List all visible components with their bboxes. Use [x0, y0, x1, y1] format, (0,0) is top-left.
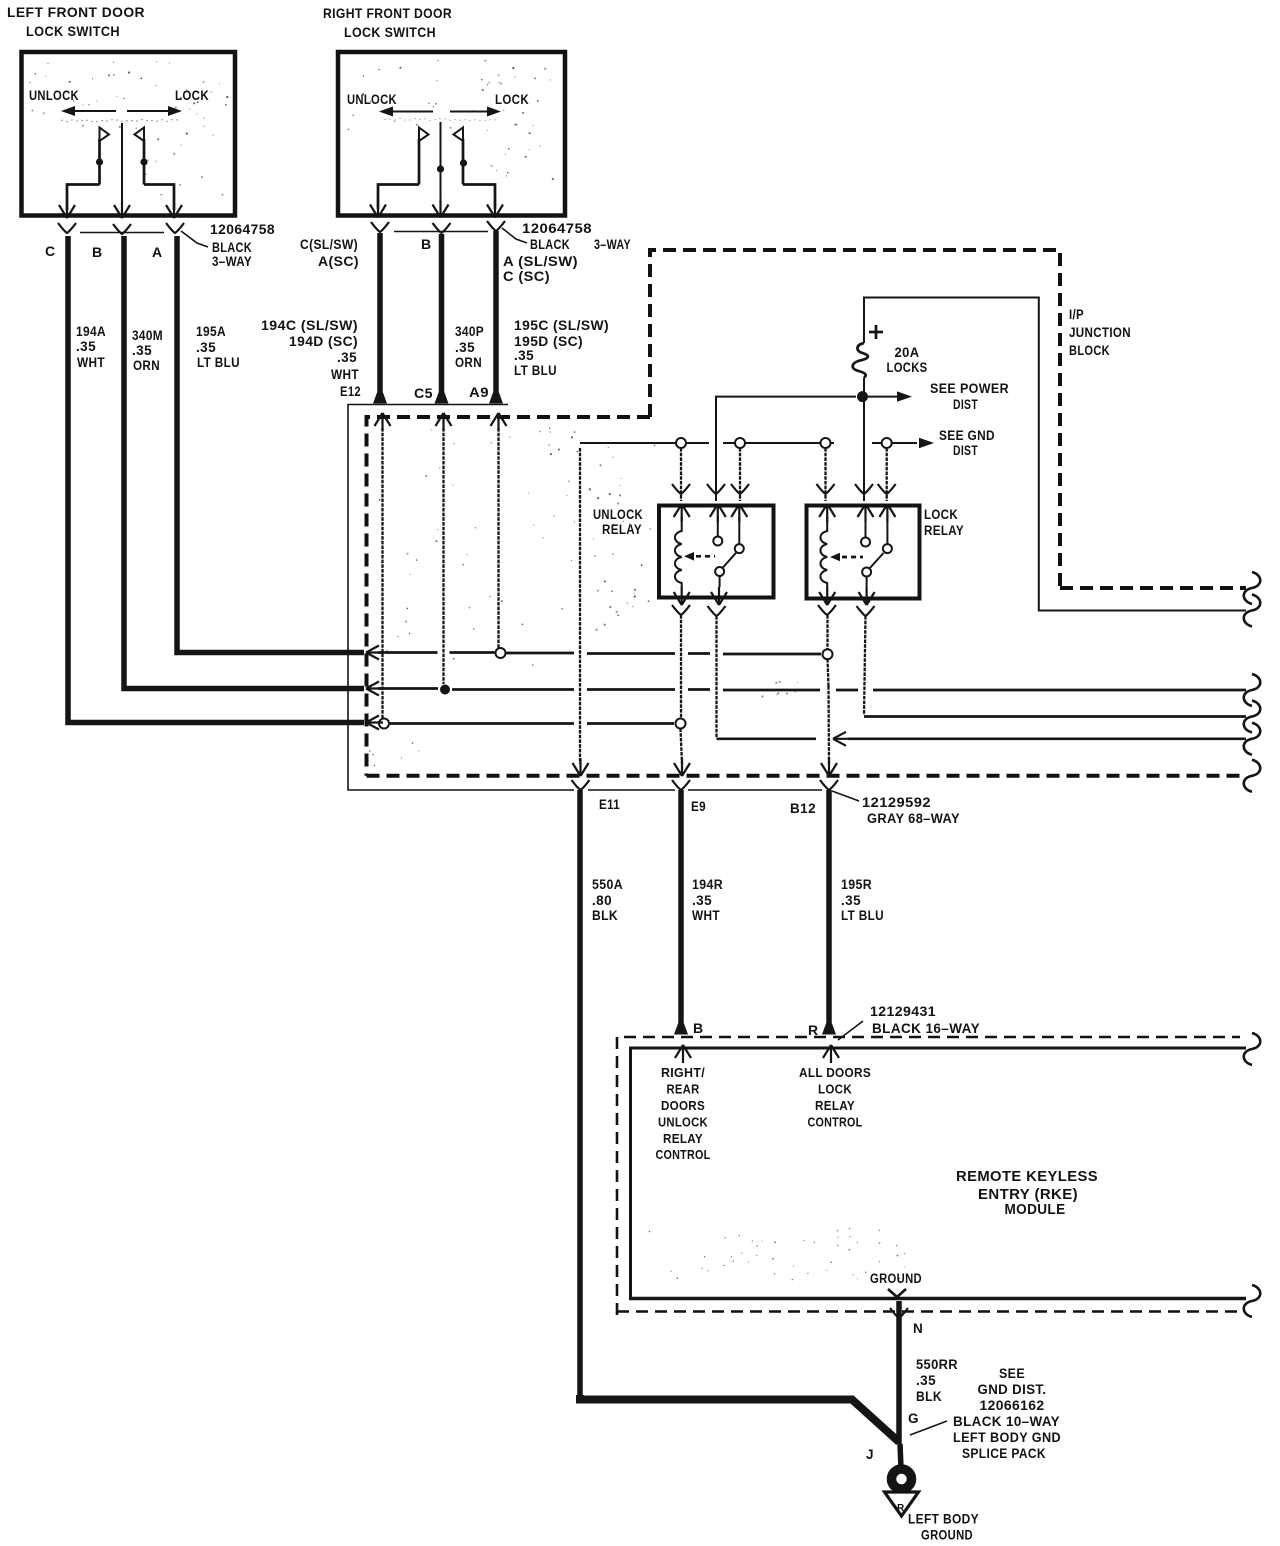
wire label 340P .35 ORN [455, 324, 484, 370]
wire label 194R .35 WHT [692, 877, 723, 923]
wire 550A ground run [580, 1395, 899, 1442]
svg-text:J: J [866, 1447, 874, 1462]
ground triangle symbol R [885, 1492, 919, 1516]
svg-text:RELAY: RELAY [815, 1099, 855, 1113]
continuation squiggle dashed I/P row [1244, 572, 1261, 604]
wire 194R E9 down [678, 790, 684, 1026]
lock relay movable blade [862, 553, 883, 587]
unlock contact blade (left box) [67, 128, 109, 211]
svg-text:RELAY: RELAY [663, 1132, 703, 1146]
connector bracket 68-way upper row [348, 405, 508, 791]
unlock relay box K1 [659, 506, 774, 598]
wire 340M B-to-D5 [124, 236, 364, 689]
svg-text:340M: 340M [132, 328, 163, 343]
svg-text:RELAY: RELAY [602, 522, 642, 537]
svg-text:SPLICE PACK: SPLICE PACK [962, 1446, 1046, 1461]
wire label 195C (SL/SW) 195D (SC) .35 LT BLU [514, 318, 609, 378]
svg-text:E12: E12 [340, 384, 361, 399]
svg-text:550A: 550A [592, 877, 623, 892]
svg-text:12064758: 12064758 [210, 222, 275, 237]
svg-text:UNLOCK: UNLOCK [347, 92, 397, 107]
pin chevron unlock contact [731, 484, 749, 494]
continuation squiggle module top [1244, 1033, 1261, 1065]
wire unlock coil to E9 upper [680, 615, 682, 718]
svg-text:LEFT BODY GND: LEFT BODY GND [953, 1430, 1061, 1445]
wire 195R B12 down [826, 790, 832, 1026]
svg-text:E11: E11 [599, 797, 620, 812]
connector label 12129592 GRAY 68-WAY [862, 795, 960, 826]
svg-text:ORN: ORN [133, 358, 160, 373]
connector pin C (right) [371, 222, 389, 232]
svg-text:12129592: 12129592 [862, 795, 931, 810]
lock relay NO contact [883, 516, 892, 553]
row arrow at unlock blade row [833, 732, 850, 746]
pin chevron E9 [672, 780, 690, 790]
lock travel arrow (left box) [127, 106, 182, 116]
lock contact blade (left box) [135, 128, 175, 211]
svg-text:340P: 340P [455, 324, 484, 339]
continuation squiggle row D5 [1244, 674, 1261, 706]
terminal arrow B at box bottom (right) [433, 200, 449, 218]
connector leader line (right box) [502, 228, 527, 243]
connector pin C [58, 223, 76, 233]
pin chevron B12 [820, 780, 838, 790]
svg-text:B: B [92, 244, 103, 260]
svg-text:LOCK: LOCK [924, 507, 958, 522]
lock relay blade bottom arrow [859, 587, 875, 605]
svg-text:REMOTE KEYLESS: REMOTE KEYLESS [956, 1169, 1098, 1185]
unlock relay coil [675, 516, 682, 587]
svg-text:LOCK: LOCK [495, 92, 529, 107]
row D5 entry arrow [366, 682, 383, 696]
svg-text:C5: C5 [414, 386, 433, 401]
wire A right box to A9 [493, 231, 499, 398]
svg-text:A: A [152, 244, 163, 260]
see gnd dist arrowhead [919, 438, 934, 448]
junction circle gnd / lock coil [821, 438, 831, 448]
svg-text:MODULE: MODULE [1005, 1202, 1066, 1218]
entry arrow A9 at dashed border [491, 413, 507, 431]
svg-text:REAR: REAR [667, 1083, 700, 1097]
unlock travel arrow (right box) [379, 107, 433, 117]
connector pin B [113, 224, 131, 234]
svg-text:R: R [808, 1022, 819, 1038]
svg-text:194R: 194R [692, 877, 723, 892]
svg-text:12129431: 12129431 [870, 1004, 936, 1019]
svg-text:ENTRY (RKE): ENTRY (RKE) [978, 1187, 1078, 1203]
connector leader 12129592 [832, 791, 859, 801]
speckle noise [30, 60, 906, 1281]
junction circle gnd / lock contact [882, 438, 892, 448]
wire lock coil to B12 middle [828, 659, 829, 686]
svg-text:RIGHT/: RIGHT/ [661, 1066, 705, 1080]
svg-text:12064758: 12064758 [522, 221, 592, 236]
wire label 550RR .35 BLK [916, 1357, 958, 1404]
connector bridge line (left box) [80, 232, 164, 234]
svg-text:CONTROL: CONTROL [656, 1148, 711, 1162]
svg-text:20A: 20A [895, 345, 920, 360]
svg-text:LOCK SWITCH: LOCK SWITCH [26, 24, 120, 39]
svg-text:I/P: I/P [1069, 307, 1084, 322]
svg-text:DIST: DIST [953, 443, 978, 458]
svg-text:A9: A9 [469, 385, 489, 400]
terminal arrow C at box bottom (right) [370, 200, 386, 218]
junction circle E12/D12 [379, 719, 389, 729]
svg-text:550RR: 550RR [916, 1357, 958, 1372]
terminal foot C5 [435, 393, 449, 404]
svg-text:.35: .35 [196, 340, 216, 355]
terminal arrow C at box bottom [59, 200, 75, 218]
svg-text:RIGHT FRONT DOOR: RIGHT FRONT DOOR [323, 6, 452, 21]
svg-text:BLACK 16–WAY: BLACK 16–WAY [872, 1021, 980, 1036]
svg-text:WHT: WHT [692, 908, 720, 923]
svg-text:.35: .35 [132, 343, 152, 358]
wire 195A A-to-A12 [177, 236, 364, 653]
svg-text:.35: .35 [337, 350, 357, 365]
row D5 [378, 689, 1246, 691]
terminal arrow B at box bottom [114, 200, 130, 218]
svg-text:B: B [421, 236, 432, 252]
junction circle A9/A12 [496, 648, 506, 658]
pin chevron below unlock blade [708, 606, 726, 616]
wire lock coil to B12 upper [826, 615, 828, 649]
svg-text:.35: .35 [76, 339, 96, 354]
wire unlock blade to row [715, 616, 717, 738]
svg-text:B: B [693, 1020, 704, 1036]
wire label 194A .35 WHT [76, 324, 106, 370]
module entry arrow B [675, 1045, 691, 1063]
wire 194A C-to-D12 [68, 236, 364, 723]
unlock relay label [593, 507, 643, 537]
pin chevron lock power [855, 484, 873, 494]
unlock relay fixed contact top [713, 516, 722, 546]
connector label 12064758 BLACK 3-WAY (right box) [522, 221, 631, 252]
continuation squiggle unlock blade row [1244, 723, 1261, 755]
unlock relay blade bottom arrow [711, 587, 727, 605]
lock relay coil bottom arrow [819, 587, 835, 605]
wire label 340M .35 ORN [132, 328, 163, 373]
splice leader line [910, 1421, 947, 1435]
continuation squiggle dashed bottom row [1244, 760, 1261, 792]
ground label left body ground [908, 1512, 979, 1543]
svg-text:LOCK: LOCK [175, 88, 209, 103]
continuation squiggle module bottom [1244, 1285, 1261, 1317]
svg-text:3–WAY: 3–WAY [594, 237, 631, 252]
wire E11 inside junction block [579, 448, 581, 764]
junction dot fuse / power feed [857, 391, 868, 402]
svg-text:GRAY 68–WAY: GRAY 68–WAY [867, 811, 960, 826]
wire A9 to A12 row [497, 428, 499, 648]
svg-text:UNLOCK: UNLOCK [593, 507, 643, 522]
unlock relay pin arrow coil top [674, 504, 690, 522]
svg-text:LOCKS: LOCKS [887, 360, 928, 375]
module text right/rear doors unlock relay control [656, 1066, 711, 1162]
pin chevron below lock coil [818, 605, 836, 615]
lock travel arrow (right box) [450, 107, 501, 117]
see power dist label [930, 381, 1009, 412]
connector pin B (right) [433, 223, 451, 233]
see gnd dist label [939, 428, 995, 458]
continuation squiggle lock blade row [1244, 701, 1261, 733]
unlock relay pin arrow contact top [731, 504, 747, 522]
lock relay coil [820, 516, 827, 587]
entry arrow C5 at dashed border [436, 413, 452, 431]
I/P junction block label [1069, 307, 1131, 358]
lock relay actuator link [830, 553, 863, 562]
junction circle D12 / E9 wire [676, 719, 686, 729]
wire gnd to unlock coil pin [680, 448, 682, 501]
wire gnd to lock coil pin [824, 448, 826, 501]
ring terminal [892, 1469, 912, 1489]
switch common pole B (left box) [121, 123, 123, 214]
power branch to unlock relay [716, 397, 856, 501]
lock relay pin arrow contact top [879, 504, 895, 522]
svg-text:194D (SC): 194D (SC) [289, 334, 358, 349]
right front door lock switch title [323, 6, 452, 40]
svg-text:LEFT FRONT DOOR: LEFT FRONT DOOR [7, 5, 145, 20]
unlock relay coil bottom arrow [674, 587, 690, 605]
unlock relay pin arrow power top [710, 504, 726, 522]
svg-text:B12: B12 [790, 801, 816, 816]
svg-text:LOCK: LOCK [818, 1083, 852, 1097]
svg-text:C: C [45, 243, 56, 259]
wire module ground to N [896, 1301, 902, 1444]
svg-text:SEE GND: SEE GND [939, 428, 995, 443]
splice label black 10-way left body gnd splice pack [953, 1414, 1061, 1461]
terminal foot B [674, 1024, 688, 1035]
connector pin A (right) [487, 221, 505, 231]
connector label 12064758 BLACK 3-WAY (left box) [210, 222, 275, 269]
svg-text:195D (SC): 195D (SC) [514, 334, 583, 349]
exit arrow E11 [573, 758, 589, 776]
row A12 entry arrow [366, 646, 383, 660]
svg-text:N: N [913, 1321, 923, 1336]
svg-text:C(SL/SW): C(SL/SW) [300, 237, 358, 252]
pin chevron E11 [572, 780, 590, 790]
wire C5 to D5 row [442, 428, 444, 684]
right front door lock switch box S2 [338, 52, 565, 216]
wire lock coil to B12 lower [827, 686, 830, 764]
svg-text:.35: .35 [455, 340, 475, 355]
pin chevron below unlock coil [672, 605, 690, 615]
svg-text:CONTROL: CONTROL [808, 1116, 863, 1130]
unlock travel arrow (left box) [61, 106, 116, 116]
wire gnd to unlock contact pin [739, 448, 741, 501]
wire label 194C (SL/SW) 194D (SC) .35 WHT [261, 318, 359, 382]
svg-text:.80: .80 [592, 893, 612, 908]
wire 550A E11 down [577, 790, 583, 1399]
wire E12 to D12 row [381, 428, 383, 718]
wire label 195A .35 LT BLU [196, 324, 240, 370]
svg-text:UNLOCK: UNLOCK [29, 88, 79, 103]
svg-text:BLACK: BLACK [212, 240, 252, 255]
svg-text:.35: .35 [916, 1373, 936, 1388]
svg-text:UNLOCK: UNLOCK [658, 1116, 708, 1130]
note see gnd dist 12066162 [978, 1366, 1047, 1413]
I/P junction block dashed boundary [650, 250, 1246, 588]
svg-text:BLOCK: BLOCK [1069, 343, 1110, 358]
svg-text:BLK: BLK [916, 1389, 942, 1404]
fuse feed wire to power dist [864, 298, 1246, 611]
exit arrow B12 [821, 758, 837, 776]
unlock blade row continuation [848, 737, 1246, 740]
unlock relay movable blade [715, 553, 736, 587]
terminal arrow A at box bottom [166, 200, 182, 218]
ground bus E11 corner [580, 442, 676, 444]
svg-text:GROUND: GROUND [870, 1271, 922, 1286]
svg-text:GND DIST.: GND DIST. [978, 1382, 1047, 1397]
module text all doors lock relay control [799, 1066, 871, 1130]
pin chevron unlock power [707, 484, 725, 494]
svg-text:LT BLU: LT BLU [514, 363, 557, 378]
lock relay pin arrow coil top [819, 504, 835, 522]
pin label A (SL/SW) C (SC) [503, 254, 578, 284]
inner junction block dashed border [367, 417, 1247, 776]
svg-text:WHT: WHT [77, 355, 105, 370]
svg-text:.35: .35 [514, 348, 534, 363]
svg-text:G: G [908, 1411, 919, 1426]
svg-text:195C (SL/SW): 195C (SL/SW) [514, 318, 609, 333]
svg-text:LEFT BODY: LEFT BODY [908, 1512, 979, 1527]
svg-text:195A: 195A [196, 324, 226, 339]
row D12 [378, 723, 674, 724]
svg-text:ORN: ORN [455, 355, 482, 370]
svg-text:C (SC): C (SC) [503, 269, 550, 284]
wire unlock coil to E9 lower [681, 729, 683, 765]
svg-text:A(SC): A(SC) [318, 254, 359, 269]
svg-text:A (SL/SW): A (SL/SW) [503, 254, 578, 269]
lock relay pin arrow power top [858, 504, 874, 522]
svg-text:ALL DOORS: ALL DOORS [799, 1066, 871, 1080]
switch common pole B (right box) [437, 122, 444, 213]
svg-text:RELAY: RELAY [924, 523, 964, 538]
svg-text:DIST: DIST [953, 397, 978, 412]
left front door lock switch box S1 [22, 52, 236, 216]
svg-text:194A: 194A [76, 324, 106, 339]
svg-text:GROUND: GROUND [921, 1528, 973, 1543]
module name remote keyless entry (RKE) module [956, 1169, 1098, 1218]
connector leader line (left box) [181, 231, 208, 247]
wire lock blade to row [864, 616, 866, 715]
wire fuse to lock relay [863, 378, 865, 502]
pin label C(SL/SW) A(SC) [300, 237, 359, 269]
connector bridge line (right box) [394, 231, 488, 233]
pin chevron N [890, 1308, 908, 1318]
entry arrow E12 at dashed border [375, 413, 391, 431]
pin chevron lock contact [878, 484, 896, 494]
svg-text:3–WAY: 3–WAY [212, 254, 252, 269]
svg-text:LOCK SWITCH: LOCK SWITCH [344, 25, 436, 40]
svg-text:.35: .35 [692, 893, 712, 908]
unlock relay actuator link [684, 552, 715, 561]
unlock relay NO contact [735, 516, 744, 553]
pin chevron below lock blade [857, 606, 875, 616]
wire gnd to lock contact pin [886, 448, 888, 501]
wire label 195R .35 LT BLU [841, 877, 884, 923]
svg-text:DOORS: DOORS [661, 1099, 705, 1113]
svg-text:LT BLU: LT BLU [841, 908, 884, 923]
RKE module inner border [629, 1048, 1246, 1299]
svg-text:195R: 195R [841, 877, 872, 892]
svg-text:SEE: SEE [999, 1366, 1025, 1381]
svg-text:WHT: WHT [331, 367, 359, 382]
junction dot C5/D5 [440, 685, 450, 695]
svg-text:E9: E9 [691, 799, 706, 814]
junction circle gnd / unlock coil [676, 438, 686, 448]
svg-text:BLK: BLK [592, 908, 618, 923]
pin chevron unlock coil [672, 484, 690, 494]
connector 68-way lower row line [366, 789, 822, 791]
terminal foot R [822, 1024, 836, 1035]
wire label 550A .80 BLK [592, 877, 623, 923]
pin chevron lock coil [817, 484, 835, 494]
left front door lock switch title [7, 5, 145, 39]
connector label 12129431 BLACK 16-WAY [870, 1004, 980, 1036]
svg-text:.35: .35 [841, 893, 861, 908]
lock relay label [924, 507, 964, 538]
svg-text:12066162: 12066162 [980, 1398, 1045, 1413]
svg-text:BLACK: BLACK [530, 237, 570, 252]
continuation squiggle power row [1244, 595, 1261, 627]
junction circle gnd / unlock contact [735, 438, 745, 448]
svg-text:JUNCTION: JUNCTION [1069, 325, 1131, 340]
terminal foot E12 [373, 393, 387, 404]
connector pin A [166, 223, 184, 233]
terminal arrow A at box bottom (right) [487, 200, 503, 218]
svg-text:194C (SL/SW): 194C (SL/SW) [261, 318, 358, 333]
svg-text:LT BLU: LT BLU [197, 355, 240, 370]
row A12 [378, 653, 821, 655]
RKE module outer dashed border [617, 1037, 1240, 1315]
svg-text:BLACK 10–WAY: BLACK 10–WAY [953, 1414, 1060, 1429]
fuse 20A LOCKS element [853, 343, 868, 378]
fuse label 20A LOCKS [887, 345, 928, 375]
row D12 entry arrow [366, 716, 383, 730]
fuse polarity plus [869, 325, 883, 339]
lock relay fixed contact top [861, 516, 870, 547]
svg-text:R: R [897, 1503, 905, 1514]
terminal foot A9 [489, 393, 503, 404]
lock contact blade (right box) [454, 128, 496, 210]
wire C right box to E12 [377, 233, 383, 398]
ground stub to ring terminal [900, 1444, 901, 1468]
module ground exit arrow [888, 1289, 906, 1297]
connector leader 12129431 [838, 1021, 863, 1040]
unlock contact blade (right box) [378, 128, 429, 210]
see power dist feed line [868, 391, 912, 401]
lock relay box K2 [807, 506, 920, 599]
wire B right box to C5 [439, 234, 445, 398]
ground bus segments [686, 442, 917, 444]
svg-text:SEE POWER: SEE POWER [930, 381, 1009, 396]
exit arrow E9 [674, 758, 690, 776]
module entry arrow R [823, 1045, 839, 1063]
junction circle A12 / lock relay coil [823, 649, 833, 659]
